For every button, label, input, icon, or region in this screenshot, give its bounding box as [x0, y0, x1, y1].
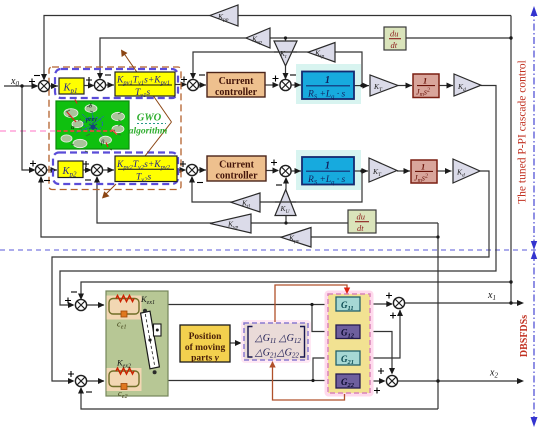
svg-text:RS +Lq · s: RS +Lq · s	[307, 175, 346, 186]
svg-text:parts y: parts y	[191, 354, 220, 364]
svg-text:algorithm: algorithm	[129, 127, 168, 137]
svg-text:controller: controller	[215, 171, 258, 182]
svg-text:RS +Lq · s: RS +Lq · s	[307, 90, 346, 101]
svg-text:of moving: of moving	[185, 343, 226, 353]
svg-text:Current: Current	[219, 76, 254, 87]
svg-text:dt: dt	[391, 40, 398, 50]
svg-text:1: 1	[325, 75, 330, 86]
svg-text:DBSFDSs: DBSFDSs	[519, 315, 530, 357]
svg-text:dt: dt	[357, 223, 364, 233]
svg-text:1: 1	[421, 162, 425, 172]
svg-text:1: 1	[325, 161, 330, 172]
svg-text:prey: prey	[85, 116, 97, 123]
svg-text:Current: Current	[219, 160, 254, 171]
svg-text:The tuned P-PI cascade control: The tuned P-PI cascade control	[517, 60, 529, 204]
svg-text:du: du	[357, 212, 366, 222]
svg-text:GWO: GWO	[137, 113, 162, 124]
svg-text:controller: controller	[215, 87, 258, 98]
svg-text:α: α	[71, 124, 75, 131]
svg-text:du: du	[390, 29, 399, 39]
svg-text:1: 1	[423, 76, 427, 86]
svg-text:Position: Position	[189, 332, 222, 342]
